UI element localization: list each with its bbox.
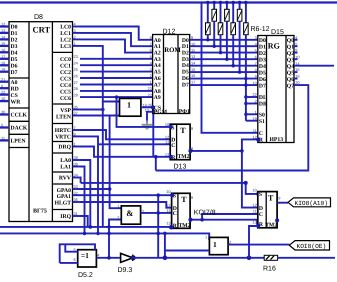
svg-text:D3: D3 bbox=[11, 44, 18, 50]
flag KIO8(A10) bbox=[288, 198, 331, 207]
svg-text:3: 3 bbox=[74, 28, 76, 33]
svg-text:IRQ: IRQ bbox=[60, 214, 71, 220]
wire buffer lower input from 164.9 vertical bbox=[165, 250, 210, 252]
node GPA1 junction bbox=[156, 193, 160, 197]
svg-text:D2: D2 bbox=[11, 38, 18, 44]
svg-text:23: 23 bbox=[74, 54, 78, 59]
svg-text:18: 18 bbox=[295, 74, 299, 79]
svg-text:23: 23 bbox=[147, 86, 151, 91]
svg-text:17: 17 bbox=[1, 54, 5, 59]
svg-text:C: C bbox=[171, 143, 175, 149]
svg-text:32: 32 bbox=[74, 190, 78, 195]
svg-text:LA1: LA1 bbox=[60, 165, 71, 171]
wire DL stub bbox=[246, 96, 258, 98]
svg-text:D5: D5 bbox=[259, 70, 266, 76]
svg-text:18: 18 bbox=[1, 60, 5, 65]
svg-text:29: 29 bbox=[74, 93, 78, 98]
wire D13 R riser to line B bbox=[155, 157, 157, 171]
svg-text:CC3: CC3 bbox=[60, 76, 71, 82]
svg-text:T: T bbox=[181, 195, 187, 204]
D12 left pin numbers bbox=[147, 35, 152, 97]
flag KOI8(OE) bbox=[289, 241, 329, 250]
svg-text:GPA0: GPA0 bbox=[57, 188, 72, 194]
svg-text:9: 9 bbox=[255, 74, 257, 79]
svg-text:A6: A6 bbox=[154, 76, 161, 82]
svg-text:D4: D4 bbox=[182, 63, 189, 69]
svg-text:1: 1 bbox=[150, 80, 152, 85]
svg-text:5: 5 bbox=[74, 247, 76, 252]
svg-text:LA0: LA0 bbox=[60, 158, 71, 164]
KOI FF pin names bbox=[173, 193, 178, 229]
svg-text:KOI8(OE): KOI8(OE) bbox=[297, 243, 327, 250]
wire bus D4 bbox=[190, 65, 258, 67]
svg-text:CC0: CC0 bbox=[60, 57, 71, 63]
svg-text:DRQ: DRQ bbox=[58, 145, 71, 151]
wire buffer output to KOI8 flag bbox=[228, 244, 289, 246]
diode D9.3 bbox=[121, 253, 133, 262]
svg-text:D: D bbox=[259, 206, 263, 212]
svg-text:D13: D13 bbox=[174, 164, 187, 171]
wire DR stub bbox=[246, 103, 258, 105]
svg-text:22: 22 bbox=[147, 92, 151, 97]
wire CC3 to A6 bbox=[80, 77, 153, 79]
wire CC6 to A9 bbox=[80, 96, 153, 98]
svg-text:1: 1 bbox=[205, 235, 207, 240]
wire vertical 164.9 from line2 to diode line bbox=[164, 233, 166, 257]
D15 right pin stubs and numbers bbox=[294, 40, 298, 79]
svg-text:12: 12 bbox=[252, 203, 256, 208]
wire riser to D15 R bbox=[242, 139, 258, 151]
svg-text:VSP: VSP bbox=[60, 108, 71, 114]
svg-text:12: 12 bbox=[1, 22, 5, 27]
svg-text:C: C bbox=[173, 211, 177, 217]
svg-text:9: 9 bbox=[191, 195, 193, 200]
node line1 junctions bbox=[89, 225, 93, 229]
resistor R10 bbox=[231, 1, 236, 68]
wire bus D7 bbox=[190, 84, 258, 86]
wire CS junction down to DRQ line bbox=[152, 107, 154, 157]
svg-text:ROM: ROM bbox=[164, 47, 181, 54]
svg-text:R16: R16 bbox=[263, 266, 276, 273]
svg-text:D6: D6 bbox=[259, 77, 266, 83]
svg-text:26: 26 bbox=[74, 73, 78, 78]
svg-text:A4: A4 bbox=[154, 63, 161, 69]
wire XOR top input bbox=[65, 244, 77, 251]
svg-text:36: 36 bbox=[74, 197, 78, 202]
svg-text:D5.2: D5.2 bbox=[78, 272, 93, 279]
svg-text:11: 11 bbox=[167, 208, 171, 213]
wire LTEN vertical down to AND gate top input bbox=[110, 116, 122, 209]
wire D14 D feed down from D13 output line bbox=[242, 151, 258, 208]
wire IRQ down to line1 bbox=[80, 216, 88, 227]
svg-text:D6: D6 bbox=[182, 76, 189, 82]
svg-text:R6-12: R6-12 bbox=[251, 26, 270, 33]
svg-text:3: 3 bbox=[255, 35, 257, 40]
wire GPA1 vertical down bbox=[157, 195, 159, 258]
wire CC2 to A5 bbox=[80, 71, 153, 73]
svg-text:Q5: Q5 bbox=[287, 70, 294, 76]
svg-text:28: 28 bbox=[74, 86, 78, 91]
D15 left pin numbers bbox=[252, 35, 257, 140]
node KOI S inversion bbox=[170, 193, 174, 197]
svg-text:Q1: Q1 bbox=[287, 44, 294, 50]
svg-text:8: 8 bbox=[150, 35, 152, 40]
wire VSP tee into vertical bbox=[80, 109, 103, 111]
svg-text:CC1: CC1 bbox=[60, 64, 71, 70]
D8 left pin stubs with pin numbers bbox=[0, 27, 9, 141]
svg-text:D1: D1 bbox=[259, 44, 266, 50]
svg-text:S0: S0 bbox=[259, 113, 265, 119]
chip KOI flip-flop T bbox=[172, 193, 191, 228]
svg-text:RVV: RVV bbox=[59, 176, 72, 182]
svg-text:D9.3: D9.3 bbox=[118, 267, 133, 274]
wire D14 R down to R16 line bbox=[249, 226, 258, 258]
node big junction at 249 bbox=[247, 255, 252, 260]
D12 pin names bbox=[154, 38, 168, 116]
svg-text:CCLK: CCLK bbox=[11, 113, 28, 119]
svg-text:D15: D15 bbox=[271, 29, 284, 36]
svg-text:1: 1 bbox=[74, 41, 76, 46]
wire CC5 to A8 bbox=[80, 90, 153, 92]
wire bottom line1 bbox=[0, 226, 172, 228]
wire DRQ to D13 R bbox=[80, 147, 170, 157]
wire LA1 down to line2 bbox=[80, 167, 85, 234]
svg-text:D2: D2 bbox=[259, 51, 266, 57]
svg-text:15: 15 bbox=[191, 67, 195, 72]
svg-text:D7: D7 bbox=[182, 83, 189, 89]
svg-text:D0: D0 bbox=[11, 25, 18, 31]
D15 pin names bbox=[259, 38, 268, 144]
svg-text:17: 17 bbox=[191, 80, 195, 85]
wire LTEN to OR gate input and corner down bbox=[80, 115, 120, 117]
svg-text:D5: D5 bbox=[11, 57, 18, 63]
wire RVV down to line C bbox=[79, 178, 82, 183]
chip D14 flip-flop bbox=[258, 192, 277, 228]
svg-text:5: 5 bbox=[150, 54, 152, 59]
svg-text:T: T bbox=[180, 126, 186, 135]
svg-text:5: 5 bbox=[295, 41, 297, 46]
node CS junction bbox=[151, 105, 155, 109]
svg-text:D5: D5 bbox=[182, 70, 189, 76]
gate XOR D5.2 bbox=[78, 250, 97, 267]
svg-text:D12: D12 bbox=[163, 29, 176, 36]
svg-text:37: 37 bbox=[74, 111, 78, 116]
wire D14 output to KIO8 flag bbox=[277, 202, 288, 204]
svg-text:13: 13 bbox=[252, 219, 256, 224]
svg-text:1: 1 bbox=[213, 240, 217, 249]
node D13 R inversion bbox=[169, 155, 173, 159]
svg-text:16: 16 bbox=[191, 73, 195, 78]
svg-text:VRTC: VRTC bbox=[55, 135, 71, 141]
wire D12 PGM to ground bbox=[147, 112, 153, 121]
wire LA0 down to line1 bbox=[80, 160, 90, 227]
svg-text:2: 2 bbox=[255, 99, 257, 104]
svg-text:D2: D2 bbox=[182, 51, 189, 57]
node D14 R inversion bbox=[256, 224, 260, 228]
wire CC4 to A7 bbox=[80, 84, 153, 86]
wire GPA0 tee into LTEN vertical bbox=[80, 188, 110, 190]
svg-text:KIO8(A10): KIO8(A10) bbox=[295, 200, 328, 207]
svg-text:CRT: CRT bbox=[33, 25, 51, 35]
wire R16 right bbox=[278, 257, 335, 259]
svg-text:31: 31 bbox=[74, 211, 78, 216]
svg-text:GPA1: GPA1 bbox=[57, 194, 72, 200]
svg-text:1: 1 bbox=[74, 142, 76, 147]
svg-text:CC5: CC5 bbox=[60, 89, 71, 95]
chip D13 flip-flop bbox=[170, 124, 190, 160]
svg-text:19: 19 bbox=[252, 116, 256, 121]
svg-text:ВГ75: ВГ75 bbox=[33, 209, 47, 215]
svg-text:11: 11 bbox=[165, 140, 169, 145]
svg-text:1: 1 bbox=[255, 110, 257, 115]
svg-text:35: 35 bbox=[74, 105, 78, 110]
node line2 junctions bbox=[83, 232, 87, 236]
svg-text:PGM: PGM bbox=[154, 110, 168, 116]
D8 left pin names bbox=[11, 25, 28, 145]
svg-text:LPEN: LPEN bbox=[11, 139, 27, 145]
wire GPA1 to KOI flip-flop S bbox=[80, 194, 172, 196]
svg-text:19: 19 bbox=[1, 67, 5, 72]
svg-text:D4: D4 bbox=[259, 64, 266, 70]
svg-text:25: 25 bbox=[74, 67, 78, 72]
svg-text:ТМ2: ТМ2 bbox=[178, 154, 190, 160]
svg-text:5: 5 bbox=[255, 48, 257, 53]
svg-text:A9: A9 bbox=[154, 95, 161, 101]
svg-text:2: 2 bbox=[150, 73, 152, 78]
svg-text:33: 33 bbox=[74, 184, 78, 189]
node diode cathode junction bbox=[131, 255, 136, 260]
svg-text:7: 7 bbox=[74, 125, 76, 130]
svg-text:KOI7/8: KOI7/8 bbox=[194, 209, 216, 217]
resistor R6 bbox=[206, 1, 211, 42]
node AND output junction bbox=[156, 211, 160, 215]
chip D15 outline bbox=[258, 36, 294, 143]
svg-text:13: 13 bbox=[1, 28, 5, 33]
wire rail drop to D15 C bbox=[202, 3, 258, 133]
svg-text:Q7: Q7 bbox=[287, 83, 294, 89]
svg-text:LC1: LC1 bbox=[60, 31, 71, 37]
svg-text:HLGT: HLGT bbox=[55, 201, 72, 207]
gate AND bbox=[121, 206, 140, 224]
wire KOI output riser to D14 C bbox=[202, 214, 258, 220]
wire XOR bottom input bbox=[60, 262, 78, 264]
node junction at 109 bbox=[107, 256, 111, 260]
node D13 S inversion bbox=[169, 125, 173, 129]
D14 pin names bbox=[259, 192, 264, 228]
svg-text:A5: A5 bbox=[154, 70, 161, 76]
svg-text:2: 2 bbox=[74, 35, 76, 40]
wire bus D0 bbox=[190, 39, 258, 41]
svg-text:A1: A1 bbox=[154, 44, 161, 50]
wire KOI output line bbox=[190, 219, 257, 221]
svg-text:3: 3 bbox=[150, 67, 152, 72]
svg-text:Q3: Q3 bbox=[287, 57, 294, 63]
wire S1 stub bbox=[246, 120, 258, 122]
node D14 TM2 corner bbox=[275, 218, 279, 222]
svg-text:=1: =1 bbox=[81, 251, 89, 260]
svg-text:9: 9 bbox=[295, 48, 297, 53]
svg-text:LC2: LC2 bbox=[60, 38, 71, 44]
node D15 R junction bbox=[256, 137, 260, 141]
svg-text:WR: WR bbox=[11, 99, 22, 105]
svg-text:13: 13 bbox=[166, 221, 170, 226]
svg-text:D0: D0 bbox=[182, 38, 189, 44]
chip D8 outline bbox=[9, 22, 73, 222]
wire AND gate bottom input from bottom lines bbox=[109, 220, 121, 258]
svg-text:39: 39 bbox=[74, 155, 78, 160]
svg-text:CC6: CC6 bbox=[60, 96, 71, 102]
wire XOR feed loop top bbox=[60, 244, 95, 263]
svg-text:RG: RG bbox=[268, 42, 280, 51]
svg-text:7: 7 bbox=[150, 41, 152, 46]
svg-text:11: 11 bbox=[1, 136, 5, 141]
wire D13 output to right bbox=[190, 150, 242, 152]
svg-text:16: 16 bbox=[1, 47, 5, 52]
svg-text:S: S bbox=[259, 192, 262, 198]
svg-text:ИР13: ИР13 bbox=[270, 137, 284, 143]
svg-text:6: 6 bbox=[150, 48, 152, 53]
wire CC1 to A4 bbox=[80, 64, 153, 66]
svg-text:LTEN: LTEN bbox=[56, 114, 72, 120]
svg-text:11: 11 bbox=[253, 128, 257, 133]
svg-text:2: 2 bbox=[229, 239, 231, 244]
D8 right pin names bbox=[55, 25, 72, 221]
node line C junction at D14 S riser bbox=[244, 181, 248, 185]
node big junction at 164.9 bbox=[163, 255, 168, 260]
D12 right pin numbers bbox=[191, 35, 196, 85]
svg-text:ТМ2: ТМ2 bbox=[179, 223, 191, 229]
node line2 junction at 158 bbox=[156, 232, 160, 236]
wire bus D5 bbox=[190, 71, 258, 73]
svg-text:CC2: CC2 bbox=[60, 70, 71, 76]
wire LC1 to D12 A1 bbox=[80, 33, 153, 46]
wire VRTC to D13 C bbox=[80, 136, 98, 233]
svg-text:27: 27 bbox=[74, 80, 78, 85]
svg-text:13: 13 bbox=[165, 152, 169, 157]
resistor R7 bbox=[212, 1, 217, 48]
ground symbol under PGM bbox=[142, 121, 153, 130]
wire bottom line2 to OR buffer input bbox=[0, 233, 209, 239]
wire D13 S up to A9 line bbox=[117, 97, 171, 127]
svg-text:DACK: DACK bbox=[11, 126, 28, 132]
svg-text:D7: D7 bbox=[259, 83, 266, 89]
svg-text:6: 6 bbox=[74, 257, 76, 262]
svg-text:LC0: LC0 bbox=[60, 25, 71, 31]
svg-text:8: 8 bbox=[255, 67, 257, 72]
resistor R8 bbox=[218, 1, 223, 55]
resistor R9 bbox=[225, 1, 230, 61]
wire +5V top rail bbox=[0, 1, 337, 3]
svg-text:A0: A0 bbox=[11, 80, 18, 86]
svg-text:1: 1 bbox=[127, 101, 131, 110]
svg-text:38: 38 bbox=[74, 162, 78, 167]
chip D12 outline bbox=[153, 35, 190, 114]
node D14 S pin bbox=[256, 192, 260, 196]
svg-text:CC4: CC4 bbox=[60, 83, 71, 89]
svg-text:2: 2 bbox=[117, 215, 119, 220]
svg-text:Q4: Q4 bbox=[287, 64, 294, 70]
wire LC0 to D12 A0 bbox=[80, 27, 153, 40]
svg-text:A2: A2 bbox=[154, 51, 161, 57]
wire LC3 down to OR gate input bbox=[80, 46, 120, 102]
svg-text:8: 8 bbox=[1, 83, 3, 88]
svg-text:D8: D8 bbox=[34, 14, 43, 21]
wire line C to D14 S bbox=[81, 182, 246, 184]
wire HRTC to D13 D bbox=[80, 130, 170, 139]
wire bus D1 bbox=[190, 45, 258, 47]
D8 right pin stubs bbox=[73, 27, 81, 217]
svg-text:D0: D0 bbox=[259, 38, 266, 44]
svg-text:22: 22 bbox=[252, 92, 256, 97]
svg-text:D7: D7 bbox=[11, 70, 18, 76]
node KOI R inversion with line1 termination bbox=[169, 225, 174, 230]
svg-text:Q0: Q0 bbox=[287, 38, 294, 44]
wire OR output to D12 CS bbox=[141, 106, 153, 108]
D13 pin names bbox=[171, 125, 176, 161]
svg-text:C: C bbox=[259, 131, 263, 137]
wire CC0 to A3 bbox=[80, 58, 153, 60]
svg-text:A3: A3 bbox=[154, 57, 161, 63]
wire XOR output to diode bbox=[96, 257, 120, 259]
wire vertical VSP/LC3 bundle down to bottom line1 bbox=[102, 102, 104, 227]
svg-text:15: 15 bbox=[1, 41, 5, 46]
svg-text:11: 11 bbox=[253, 209, 257, 214]
wire bus D3 bbox=[190, 58, 258, 60]
svg-text:22: 22 bbox=[1, 90, 5, 95]
svg-text:ТМ2: ТМ2 bbox=[265, 223, 277, 229]
svg-text:РФ1: РФ1 bbox=[179, 109, 190, 115]
wire AND output to KOI flip-flop C bbox=[141, 212, 172, 214]
svg-text:5: 5 bbox=[1, 123, 3, 128]
svg-text:S1: S1 bbox=[259, 119, 265, 125]
resistor R16 bbox=[264, 255, 277, 260]
svg-text:HRTC: HRTC bbox=[55, 128, 71, 134]
wire S0 stub bbox=[246, 113, 258, 115]
svg-text:D4: D4 bbox=[11, 51, 18, 57]
svg-text:DR: DR bbox=[259, 102, 268, 108]
resistor R12 bbox=[244, 1, 249, 121]
svg-text:D1: D1 bbox=[11, 31, 18, 37]
svg-text:21: 21 bbox=[1, 77, 5, 82]
wire bus D6 bbox=[190, 78, 258, 80]
svg-text:C: C bbox=[259, 212, 263, 218]
svg-text:1: 1 bbox=[117, 204, 119, 209]
wire HLGT to KOI flip-flop D bbox=[80, 202, 172, 208]
wire diode line to R16 bbox=[131, 257, 264, 259]
wire down from KOI line to D14 R bbox=[256, 220, 259, 226]
OR gate D near CS bbox=[120, 98, 141, 116]
svg-text:D3: D3 bbox=[259, 57, 266, 63]
svg-text:CS: CS bbox=[11, 93, 18, 99]
svg-text:7: 7 bbox=[255, 61, 257, 66]
svg-text:A0: A0 bbox=[154, 38, 161, 44]
svg-text:&: & bbox=[126, 208, 133, 218]
svg-text:A7: A7 bbox=[154, 83, 161, 89]
svg-text:6: 6 bbox=[255, 54, 257, 59]
resistor R11 bbox=[237, 1, 242, 74]
svg-text:Q6: Q6 bbox=[287, 77, 294, 83]
svg-text:RD: RD bbox=[11, 86, 19, 92]
svg-text:D6: D6 bbox=[11, 64, 18, 70]
svg-text:DL: DL bbox=[259, 95, 267, 101]
svg-text:D3: D3 bbox=[182, 57, 189, 63]
svg-text:9: 9 bbox=[278, 195, 280, 200]
wire LC2 to D12 A2 bbox=[80, 39, 153, 52]
wire bus D2 bbox=[190, 52, 258, 54]
svg-text:9: 9 bbox=[74, 132, 76, 137]
svg-text:Q2: Q2 bbox=[287, 51, 294, 57]
svg-text:LC3: LC3 bbox=[60, 44, 71, 50]
